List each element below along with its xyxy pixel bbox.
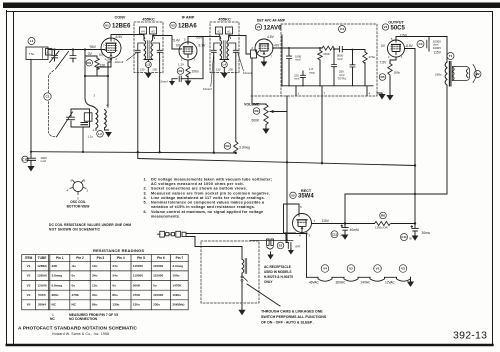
- svg-text:0o: 0o: [112, 283, 116, 287]
- svg-text:measurements.: measurements.: [151, 214, 180, 218]
- svg-text:470K: 470K: [323, 52, 330, 56]
- svg-text:500K: 500K: [133, 283, 141, 287]
- svg-text:86o: 86o: [112, 293, 117, 297]
- svg-text:L1: L1: [30, 39, 34, 43]
- svg-text:C4: C4: [340, 27, 344, 31]
- svg-text:86o: 86o: [92, 303, 97, 307]
- svg-text:NC: NC: [50, 317, 55, 321]
- svg-text:3.3meg: 3.3meg: [172, 264, 183, 268]
- svg-text:130: 130: [152, 67, 157, 71]
- svg-text:46VAC: 46VAC: [309, 280, 320, 284]
- svg-text:130: 130: [216, 67, 221, 71]
- svg-text:BOTTOM VIEW: BOTTOM VIEW: [67, 204, 90, 208]
- svg-text:500K: 500K: [252, 118, 261, 122]
- svg-text:13o: 13o: [92, 283, 97, 287]
- svg-text:DET AVC AF AMP: DET AVC AF AMP: [257, 19, 286, 23]
- svg-text:V3: V3: [27, 283, 31, 287]
- svg-text:V4: V4: [323, 267, 327, 271]
- svg-text:35W4: 35W4: [298, 194, 314, 200]
- svg-text:.047: .047: [295, 244, 301, 248]
- svg-text:6.8meg: 6.8meg: [52, 283, 63, 287]
- svg-text:L3: L3: [146, 63, 150, 67]
- svg-text:35W4: 35W4: [38, 303, 46, 307]
- svg-text:0o: 0o: [72, 274, 76, 278]
- svg-text:Pin 2: Pin 2: [76, 256, 84, 260]
- svg-text:10mmf: 10mmf: [203, 87, 212, 91]
- svg-text:L4: L4: [222, 63, 226, 67]
- svg-text:V1: V1: [27, 264, 31, 268]
- svg-text:OUTPUT: OUTPUT: [388, 21, 404, 25]
- svg-text:Pin 4: Pin 4: [117, 256, 125, 260]
- svg-text:470K: 470K: [133, 293, 141, 297]
- svg-text:DC voltage measurements taken: DC voltage measurements taken with vacuu…: [151, 178, 272, 182]
- svg-text:THROUGH CAMS & LINKAGES ONE: THROUGH CAMS & LINKAGES ONE: [261, 310, 323, 314]
- svg-text:C11: C11: [401, 235, 407, 239]
- svg-text:T1: T1: [449, 54, 453, 58]
- svg-text:0o: 0o: [72, 283, 76, 287]
- svg-text:V5: V5: [291, 193, 295, 197]
- svg-text:470o: 470o: [369, 55, 376, 59]
- svg-text:SWITCH PERFORMS ALL FUNCTIONS: SWITCH PERFORMS ALL FUNCTIONS: [261, 315, 327, 319]
- svg-text:12BE6: 12BE6: [37, 264, 47, 268]
- svg-text:36VAC: 36VAC: [336, 280, 347, 284]
- svg-text:R6: R6: [381, 214, 385, 218]
- svg-text:Pin 7: Pin 7: [176, 256, 184, 260]
- svg-text:V1: V1: [376, 267, 380, 271]
- svg-text:13o: 13o: [92, 264, 97, 268]
- svg-text:R3: R3: [255, 109, 259, 113]
- svg-text:H-902T5 & H-903T5: H-902T5 & H-903T5: [264, 275, 293, 279]
- svg-text:130o: 130o: [133, 303, 140, 307]
- svg-text:Measured values are from socke: Measured values are from socket pin to c…: [151, 191, 270, 195]
- svg-text:10mmf: 10mmf: [243, 71, 252, 75]
- svg-text:NOT SHOWN ON SCHEMATIC: NOT SHOWN ON SCHEMATIC: [49, 228, 101, 232]
- svg-text:24VAC: 24VAC: [361, 280, 372, 284]
- svg-text:3.: 3.: [144, 191, 147, 195]
- svg-text:12AV6: 12AV6: [37, 283, 47, 287]
- svg-text:34o: 34o: [112, 264, 117, 268]
- svg-text:1190o: 1190o: [172, 293, 181, 297]
- svg-text:B: B: [410, 236, 412, 240]
- svg-text:130: 130: [140, 67, 145, 71]
- svg-text:S1: S1: [279, 244, 283, 248]
- svg-text:V4: V4: [27, 293, 31, 297]
- svg-text:7.5V: 7.5V: [380, 61, 388, 65]
- svg-text:12AV6: 12AV6: [264, 25, 283, 31]
- svg-text:3.3meg: 3.3meg: [239, 145, 250, 149]
- svg-text:A1: A1: [47, 50, 51, 54]
- svg-text:22K: 22K: [100, 64, 107, 68]
- svg-text:34o: 34o: [112, 274, 117, 278]
- svg-text:Nominal tolerance on component: Nominal tolerance on component values ma…: [151, 201, 265, 205]
- svg-text:“56V: “56V: [89, 45, 97, 49]
- svg-text:1.1o: 1.1o: [88, 134, 94, 138]
- svg-text:meg: meg: [309, 70, 315, 74]
- svg-text:A1: A1: [227, 30, 231, 34]
- svg-text:Volume control at maximum, no: Volume control at maximum, no signal app…: [151, 210, 263, 214]
- svg-text:5.: 5.: [144, 201, 147, 205]
- svg-text:20K(Ms): 20K(Ms): [172, 303, 184, 307]
- svg-text:Pin 6: Pin 6: [157, 256, 165, 260]
- svg-text:R4: R4: [226, 144, 230, 148]
- svg-text:variation of ±15% in voltage a: variation of ±15% in voltage and resista…: [151, 205, 255, 209]
- svg-text:.9o: .9o: [72, 264, 77, 268]
- svg-text:33K: 33K: [52, 264, 58, 268]
- svg-text:C11: C11: [332, 233, 338, 237]
- svg-text:AC voltages measured at 1000 o: AC voltages measured at 1000 ohms per vo…: [151, 182, 244, 186]
- svg-text:NO CONNECTION: NO CONNECTION: [69, 317, 98, 321]
- svg-text:mmf: mmf: [337, 57, 343, 61]
- svg-text:130o: 130o: [112, 303, 119, 307]
- svg-text:180o: 180o: [394, 71, 401, 75]
- svg-text:12BE6: 12BE6: [112, 24, 131, 30]
- svg-text:A4: A4: [141, 30, 145, 34]
- svg-text:Line voltage maintained at 117: Line voltage maintained at 117 volts for…: [151, 196, 265, 200]
- svg-text:NC: NC: [52, 303, 57, 307]
- svg-text:10mmf: 10mmf: [159, 80, 168, 84]
- svg-text:6.: 6.: [144, 210, 147, 214]
- svg-text:455KC: 455KC: [218, 17, 231, 22]
- svg-text:0o: 0o: [153, 283, 157, 287]
- svg-text:TOTAL: TOTAL: [338, 76, 347, 80]
- svg-text:34o: 34o: [92, 293, 97, 297]
- svg-text:C1: C1: [46, 95, 50, 99]
- svg-text:L2: L2: [98, 132, 102, 136]
- svg-text:8.1V: 8.1V: [199, 43, 207, 47]
- svg-text:115000: 115000: [153, 293, 163, 297]
- svg-text:1.: 1.: [144, 178, 147, 182]
- svg-text:12BA6: 12BA6: [37, 274, 47, 278]
- svg-text:115000: 115000: [153, 264, 163, 268]
- svg-text:380o: 380o: [52, 293, 59, 297]
- svg-text:C3: C3: [419, 42, 423, 46]
- svg-text:C10: C10: [22, 158, 28, 162]
- svg-text:NC: NC: [72, 303, 77, 307]
- svg-text:34o: 34o: [92, 274, 97, 278]
- svg-text:DC COIL RESISTANCE VALUES UNDE: DC COIL RESISTANCE VALUES UNDER ONE OHM: [49, 223, 131, 227]
- svg-text:-8.5V: -8.5V: [405, 44, 414, 48]
- svg-text:7.5o: 7.5o: [29, 52, 35, 56]
- svg-text:RESISTANCE READINGS: RESISTANCE READINGS: [93, 248, 144, 253]
- svg-text:65V: 65V: [197, 36, 204, 40]
- svg-text:R2: R2: [179, 69, 183, 73]
- svg-text:V2: V2: [171, 23, 175, 27]
- svg-text:4.: 4.: [144, 196, 147, 200]
- svg-text:12VAC: 12VAC: [385, 280, 396, 284]
- svg-text:115000: 115000: [133, 264, 143, 268]
- svg-text:-6.5V: -6.5V: [115, 35, 124, 39]
- svg-text:190o: 190o: [435, 72, 442, 76]
- svg-text:ITEM: ITEM: [25, 256, 33, 260]
- svg-text:100o: 100o: [172, 274, 179, 278]
- svg-text:470K: 470K: [72, 293, 80, 297]
- svg-text:V2: V2: [349, 267, 353, 271]
- svg-text:mmf: mmf: [41, 159, 47, 163]
- svg-text:392-13: 392-13: [453, 330, 487, 342]
- svg-text:100o: 100o: [192, 69, 200, 73]
- svg-text:V3: V3: [401, 267, 405, 271]
- svg-text:AC RECEPTACLE: AC RECEPTACLE: [264, 265, 291, 269]
- svg-text:Pin 5: Pin 5: [137, 256, 145, 260]
- svg-text:Howard W. Sams & Co., Inc. 195: Howard W. Sams & Co., Inc. 1958: [52, 332, 109, 336]
- svg-text:A PHOTOFACT STANDARD NOTATION: A PHOTOFACT STANDARD NOTATION SCHEMATIC: [18, 326, 138, 332]
- svg-text:115000: 115000: [133, 274, 143, 278]
- svg-text:Pin 3: Pin 3: [97, 256, 105, 260]
- svg-text:2.: 2.: [144, 187, 147, 191]
- svg-text:mmf: mmf: [294, 77, 300, 81]
- svg-text:IF AMP: IF AMP: [182, 16, 195, 20]
- svg-text:OF ON - OFF - AUTO & SLEEP .: OF ON - OFF - AUTO & SLEEP .: [261, 321, 314, 325]
- svg-text:USED IN MODELS: USED IN MODELS: [264, 270, 291, 274]
- svg-text:R1: R1: [87, 61, 91, 65]
- svg-text:△M4: △M4: [106, 58, 113, 62]
- svg-text:mmf: mmf: [295, 58, 301, 62]
- svg-text:1: 1: [52, 313, 54, 317]
- svg-text:50C5: 50C5: [38, 293, 46, 297]
- svg-text:CONV: CONV: [115, 16, 126, 20]
- svg-text:115V: 115V: [434, 50, 442, 54]
- svg-text:A: A: [341, 233, 343, 237]
- svg-text:1470K: 1470K: [172, 283, 182, 287]
- svg-text:455KC: 455KC: [142, 17, 155, 22]
- svg-text:115V: 115V: [400, 33, 408, 37]
- svg-text:12BA6: 12BA6: [178, 24, 197, 30]
- svg-text:50C5: 50C5: [391, 25, 406, 31]
- svg-text:1300o DR: 1300o DR: [375, 226, 388, 230]
- svg-text:V3: V3: [257, 25, 261, 29]
- svg-text:230o: 230o: [153, 303, 160, 307]
- svg-text:Socket connections are shown a: Socket connections are shown as bottom v…: [151, 187, 247, 191]
- svg-text:30ma: 30ma: [422, 231, 430, 235]
- svg-text:A2: A2: [217, 30, 221, 34]
- svg-text:V2: V2: [27, 274, 31, 278]
- svg-text:ONLY: ONLY: [264, 280, 273, 284]
- svg-text:3.8meg: 3.8meg: [52, 274, 63, 278]
- svg-text:Pin 1: Pin 1: [56, 256, 64, 260]
- svg-text:RECT: RECT: [301, 189, 312, 193]
- svg-text:R5: R5: [381, 75, 385, 79]
- svg-text:V1: V1: [105, 23, 109, 27]
- svg-text:TUBE: TUBE: [38, 256, 47, 260]
- svg-text:M2: M2: [475, 72, 480, 76]
- svg-text:130: 130: [228, 67, 233, 71]
- svg-text:VOLUME: VOLUME: [244, 102, 260, 106]
- svg-text:“3.4V: “3.4V: [172, 39, 181, 43]
- svg-text:≈0V: ≈0V: [274, 43, 281, 47]
- svg-text:40mfd: 40mfd: [350, 228, 359, 232]
- svg-text:115V: 115V: [322, 219, 330, 223]
- svg-text:MEASURED FROM PIN 7 OF V5: MEASURED FROM PIN 7 OF V5: [69, 313, 118, 317]
- svg-text:1.2V: 1.2V: [178, 63, 184, 67]
- svg-text:OSC COIL: OSC COIL: [70, 200, 85, 204]
- svg-text:V4: V4: [384, 25, 388, 29]
- svg-text:115000: 115000: [153, 274, 163, 278]
- svg-text:V5: V5: [27, 303, 31, 307]
- svg-text:4.5V: 4.5V: [267, 35, 275, 39]
- svg-text:A3: A3: [151, 30, 155, 34]
